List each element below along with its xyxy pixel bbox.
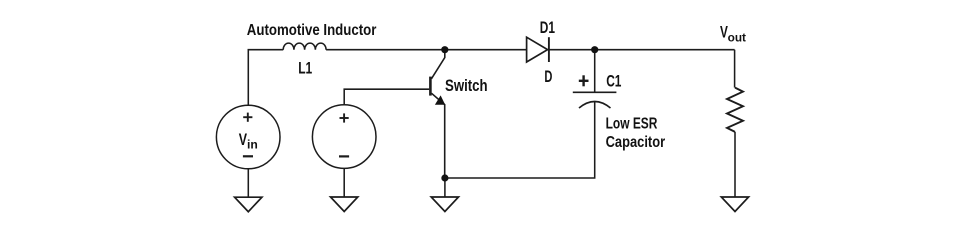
capacitor C1 top lead xyxy=(594,50,596,93)
svg-text:Switch: Switch xyxy=(445,77,488,95)
svg-text:out: out xyxy=(728,32,747,44)
transistor Q1 emitter arrowhead xyxy=(435,95,445,104)
svg-text:Capacitor: Capacitor xyxy=(606,134,666,151)
resistor R1 zigzag xyxy=(727,88,743,132)
wire emitter junction to ground xyxy=(444,178,446,197)
wire V2 top to transistor base xyxy=(344,89,429,105)
transistor Q1 collector lead xyxy=(431,50,444,79)
transistor Q1 emitter lead xyxy=(431,93,444,178)
junction dot capacitor/top rail xyxy=(591,46,598,53)
voltage source V2 circle (drive) xyxy=(312,105,376,169)
capacitor C1 straight plate xyxy=(573,91,617,93)
svg-text:D: D xyxy=(544,67,552,86)
Vin plus sign xyxy=(243,113,252,122)
voltage source V1 circle (Vin) xyxy=(216,105,280,169)
Vin minus sign xyxy=(243,155,253,157)
diode D1 cathode bar xyxy=(548,37,550,62)
ground symbol under V2 xyxy=(331,197,358,212)
V2 plus sign xyxy=(340,113,349,122)
ground symbol under transistor xyxy=(431,197,458,212)
svg-text:Automotive Inductor: Automotive Inductor xyxy=(247,22,377,39)
svg-text:D1: D1 xyxy=(540,18,555,37)
junction dot emitter/bottom return xyxy=(441,174,448,181)
inductor L1 xyxy=(283,43,326,50)
wire bottom return (emitter junction to capacitor) xyxy=(445,102,595,178)
svg-text:Low ESR: Low ESR xyxy=(606,116,658,133)
svg-text:in: in xyxy=(247,140,258,152)
wire top rail middle segment xyxy=(326,49,526,51)
svg-text:C1: C1 xyxy=(606,73,621,91)
transistor Q1 base bar xyxy=(429,77,432,96)
svg-text:V: V xyxy=(239,131,247,149)
capacitor C1 plus sign xyxy=(579,75,589,86)
wire top rail right segment xyxy=(549,49,735,51)
wire V2 to ground xyxy=(343,168,345,196)
ground symbol under Vin xyxy=(235,197,262,212)
V2 minus sign xyxy=(339,155,349,157)
capacitor C1 curved plate xyxy=(579,102,611,109)
ground symbol under resistor xyxy=(721,197,748,212)
wire Vout drop to resistor xyxy=(734,50,736,88)
svg-text:L1: L1 xyxy=(298,59,312,78)
wire top rail left segment xyxy=(248,50,283,106)
wire Vin to ground xyxy=(247,169,249,197)
wire resistor to ground xyxy=(734,132,736,197)
diode D1 triangle xyxy=(527,37,548,62)
junction dot collector/top rail xyxy=(441,46,448,53)
